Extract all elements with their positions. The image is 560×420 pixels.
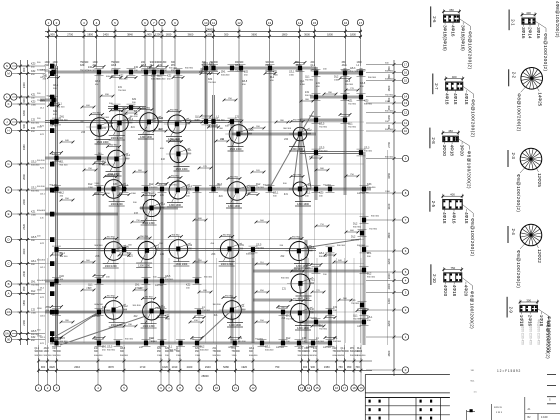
left margin label cluster 8 [50,212,54,217]
svg-text:750 900: 750 900 [202,310,211,312]
column JZL3 at (345,97) [343,95,347,100]
svg-text:H: H [7,129,9,133]
svg-text:2000: 2000 [387,283,391,289]
axis grid line vertical x=96.5 [96,40,98,343]
bottom axis stub 3 [56,345,58,385]
svg-text:Φ8@200 C30 450: Φ8@200 C30 450 [537,319,541,345]
axis grid line vertical x=162 [161,40,163,343]
right axis bubble 4 [402,277,408,283]
svg-text:900 900: 900 900 [368,77,377,79]
right axis bubble 13 [402,100,408,106]
svg-text:750: 750 [338,365,343,369]
small dimension symbol 21 [256,221,268,223]
svg-text:950: 950 [347,365,352,369]
svg-text:ZH1: ZH1 [350,348,355,350]
svg-text:600x300: 600x300 [149,187,158,189]
small dimension symbol 4 [190,121,202,123]
svg-text:QL1: QL1 [151,192,156,195]
pile cap circle P12 [293,182,307,196]
svg-text:1300 1300: 1300 1300 [169,204,181,207]
left axis bubble J [4,119,10,125]
beam horizontal y=134 [232,132,316,134]
pile cap circle P13 [143,199,160,216]
column JZL5 at (197,281) [195,279,199,284]
column ZH1 at (56.5,281) [54,279,58,284]
small dimension symbol 2 [127,107,139,109]
right axis bubble 17 [402,61,408,67]
column DL2 at (232,121.5) [230,119,234,124]
svg-text:C: C [7,262,9,266]
column JZL3 at (364,249.5) [362,247,366,252]
top axis bubble 4 [93,19,99,25]
svg-text:750 900: 750 900 [319,126,328,128]
svg-text:750 900: 750 900 [210,62,219,64]
svg-text:DL2: DL2 [124,306,129,308]
svg-text:3Φ16: 3Φ16 [521,27,526,39]
svg-text:950 950: 950 950 [292,237,301,239]
svg-text:KZ3: KZ3 [31,101,36,104]
svg-text:Φ8@100/200(2): Φ8@100/200(2) [466,151,471,189]
column ZJ2 at (345,73) [343,71,347,76]
left margin label cluster 2 [50,95,54,100]
svg-text:JZL1: JZL1 [319,252,325,255]
svg-text:600x300: 600x300 [37,210,46,212]
beam vertical x=361 [359,68,361,155]
svg-text:2-3: 2-3 [511,153,516,160]
column ZJ2 at (99,343) [97,341,101,346]
svg-text:4Φ20: 4Φ20 [443,285,448,297]
svg-text:600x300: 600x300 [158,71,168,73]
column ZJ1 at (330,189) [328,187,332,192]
left margin label cluster 15 [50,337,54,342]
left axis leader line F [12,189,45,191]
right axis leader 16 [366,72,402,74]
svg-text:900 300: 900 300 [281,278,290,280]
svg-text:900: 900 [22,67,26,72]
svg-text:2-5: 2-5 [431,201,436,208]
right axis leader 12 [366,112,402,114]
svg-text:JZL5: JZL5 [111,65,117,67]
svg-text:1300: 1300 [131,193,137,195]
svg-text:400: 400 [452,75,457,79]
column JZL3 at (364,312) [362,310,366,315]
pile cap circle P21 [143,302,161,320]
svg-text:300: 300 [303,365,308,369]
svg-text:ZJ2: ZJ2 [31,127,36,130]
svg-text:KZ1: KZ1 [195,348,200,350]
axis grid line vertical (bottom axis) x=336.5 [336,258,338,345]
svg-text:1050: 1050 [387,114,391,120]
svg-text:700: 700 [355,365,360,369]
svg-text:JZL1: JZL1 [265,346,271,349]
svg-text:11: 11 [212,21,215,25]
top axis bubble 5 [112,19,118,25]
svg-text:950 950: 950 950 [225,296,234,298]
column KZ3 at (206,121.5) [204,119,208,124]
right axis bubble 10 [402,128,408,134]
svg-text:ZJ1: ZJ1 [151,75,156,78]
small dimension symbol 33 [61,321,73,323]
svg-text:750 900: 750 900 [348,103,357,105]
bottom axis stub 1 [38,345,40,385]
title block right cell mark [547,403,556,405]
svg-text:15: 15 [404,79,408,83]
column ZJ2 at (213.5,189) [211,187,215,192]
svg-text:1300 1300: 1300 1300 [138,265,150,268]
svg-text:ZH1: ZH1 [171,65,176,67]
svg-text:DL2: DL2 [357,348,362,350]
column ZJ2 at (316,120) [314,118,318,123]
svg-text:900 300: 900 300 [31,123,40,125]
svg-text:900 900: 900 900 [364,103,373,105]
svg-text:x xx x: x xx x [496,411,503,414]
svg-text:400: 400 [526,11,531,15]
title block right cell mark [547,385,556,387]
svg-text:900 300: 900 300 [385,129,394,131]
svg-text:KZ2: KZ2 [31,336,36,339]
column KZ3 at (56.5,249.5) [54,247,58,252]
small dimension symbol 13 [134,171,146,173]
column KZ2 at (162,281) [160,279,164,284]
axis grid line vertical x=239 [238,40,240,343]
beam vertical x=283 [281,312,283,343]
svg-text:900 300: 900 300 [53,355,62,357]
svg-text:900 900: 900 900 [165,279,174,281]
svg-text:3Φ20: 3Φ20 [442,145,447,157]
svg-text:900 900: 900 900 [107,349,116,351]
top axis line 15 [314,26,316,66]
right axis bubble 3 [402,289,408,295]
svg-text:950 950: 950 950 [145,297,154,299]
right axis leader 17 [366,64,402,66]
svg-text:900 300: 900 300 [204,277,213,279]
svg-text:1300 1300: 1300 1300 [97,141,109,144]
svg-text:12: 12 [404,111,408,115]
top axis line 17 [360,26,362,66]
top axis bubble 7 [151,19,157,25]
svg-text:750 900: 750 900 [351,303,360,305]
top axis bubble 16 [342,19,348,25]
bottom axis stub 5 [123,345,125,385]
right axis bubble 11 [402,120,408,126]
left margin label cluster 5 [50,128,54,133]
column JZL1 at (262,343) [260,341,264,346]
axis grid line vertical (bottom axis) x=361 [360,258,362,345]
svg-text:QL1: QL1 [195,116,200,119]
top axis bubble 17 [357,19,363,25]
svg-text:14Φ25: 14Φ25 [538,92,543,106]
svg-text:600x300: 600x300 [319,150,328,152]
beam horizontal y=189 [45,187,371,189]
svg-text:950 950: 950 950 [293,175,302,177]
svg-text:JZL1: JZL1 [210,65,216,67]
svg-text:JZL3: JZL3 [217,183,223,186]
svg-text:QL1: QL1 [88,284,93,287]
small dimension symbol 28 [82,289,94,291]
svg-text:ZH1: ZH1 [221,71,226,74]
svg-text:750 900: 750 900 [256,247,265,249]
left margin label cluster 11 [50,282,54,287]
column JZL5 at (162,343) [160,341,164,346]
svg-text:900 300: 900 300 [238,341,247,343]
svg-text:JZL1: JZL1 [305,192,311,195]
svg-text:1800: 1800 [327,32,333,36]
beam vertical x=253 [251,249,253,343]
svg-text:12: 12 [251,386,255,390]
bottom axis stub 6 [160,345,162,385]
svg-text:QL1: QL1 [150,65,155,67]
svg-text:1300 1300: 1300 1300 [105,265,117,268]
left margin label cluster 13 [50,310,54,315]
svg-text:Φ8@100/200(2): Φ8@100/200(2) [516,250,521,288]
svg-text:JZL3: JZL3 [364,147,370,150]
left axis bubble L [4,94,10,100]
small dimension symbol 5 [216,140,228,142]
svg-text:900 300: 900 300 [266,62,275,64]
title block right cell mark [547,396,556,398]
svg-text:KZ3: KZ3 [31,63,36,66]
small dimension symbol 23 [346,231,358,233]
svg-text:3Φ16: 3Φ16 [536,27,541,39]
right axis leader 8 [366,192,402,194]
svg-text:600x300: 600x300 [265,349,274,351]
svg-text:F: F [8,188,10,192]
svg-text:QL1: QL1 [188,186,193,188]
svg-text:Φ8@100/200(2): Φ8@100/200(2) [543,33,548,71]
svg-text:Φ8@100/200(2): Φ8@100/200(2) [467,31,472,69]
svg-text:900 300: 900 300 [60,164,69,166]
bottom axis stub 9 [198,345,200,385]
svg-text:QL1: QL1 [305,76,310,79]
svg-text:15: 15 [315,386,319,390]
svg-text:Φ8@100/200(2): Φ8@100/200(2) [471,99,476,137]
axis grid line vertical (bottom axis) x=317 [316,258,318,345]
column KZ3 at (56.5,189) [54,187,58,192]
top axis line 8 [161,26,163,66]
small dimension symbol 16 [316,169,328,171]
svg-text:950 950: 950 950 [107,175,116,177]
top axis bubble 1 [45,19,51,25]
svg-text:KZ2: KZ2 [266,65,271,67]
pile cap circle P14 [104,242,123,261]
pile cap circle P17 [220,240,239,259]
svg-text:DL2: DL2 [351,236,356,239]
bottom axis bubble 3 [53,385,59,391]
top axis bubble 9 [172,19,178,25]
small dimension symbol 18 [61,199,73,201]
left margin label cluster 4 [50,120,54,125]
svg-text:00: 00 [7,338,11,342]
svg-text:900 900: 900 900 [283,128,292,130]
beam vertical x=202 [200,68,202,72]
beam vertical x=56.5 [55,66,57,345]
svg-text:ZJ1: ZJ1 [119,110,124,113]
top axis line 7 [153,26,155,66]
axis grid line horizontal y=122 [45,121,364,123]
svg-text:1300: 1300 [300,84,306,86]
svg-text:600x300: 600x300 [37,280,46,282]
svg-text:900 900: 900 900 [185,68,194,70]
small dimension symbol 38 [339,299,351,301]
svg-text:750 900: 750 900 [111,62,120,64]
right axis leader 14 [366,96,402,98]
svg-text:750 900: 750 900 [385,94,394,96]
column KZ1 at (146,189) [144,187,148,192]
svg-text:17: 17 [404,63,408,67]
beam vertical x=99 [97,73,99,343]
svg-text:10: 10 [215,386,219,390]
svg-text:900 900: 900 900 [92,316,101,318]
beam horizontal y=322 [300,320,364,322]
bottom axis bubble 11 [232,385,238,391]
column JZL3 at (313,343) [311,341,315,346]
svg-text:DL2: DL2 [161,204,166,206]
svg-text:JZL3: JZL3 [44,348,50,350]
axis grid line vertical (bottom axis) x=56.5 [56,258,58,345]
svg-text:19: 19 [359,386,363,390]
axis grid line vertical x=115 [114,40,116,343]
beam vertical x=146 [144,72,146,345]
title block right cell mark [547,374,556,376]
column ZH1 at (116,72) [114,70,118,75]
svg-text:750 900: 750 900 [232,351,241,353]
svg-text:900 300: 900 300 [113,187,122,189]
svg-text:KZ2: KZ2 [305,264,310,267]
right axis bubble 7 [402,217,408,223]
axis grid line horizontal y=239.5 [45,239,364,241]
column QL1 at (146,72) [144,70,148,75]
beam horizontal y=158 [45,156,118,158]
column QL1 at (361,73) [359,71,363,76]
svg-text:1300: 1300 [53,62,59,64]
right axis leader 7 [366,219,402,221]
svg-text:15: 15 [313,21,317,25]
svg-text:ZJ1: ZJ1 [235,116,240,119]
left margin label cluster 9 [50,237,54,242]
small dimension symbol 20 [194,219,206,221]
column KZ2 at (316,152.5) [314,150,318,155]
beam horizontal y=73 [316,71,362,73]
svg-text:DL2: DL2 [60,192,65,195]
right axis bubble 6 [402,248,408,254]
small dimension symbol 37 [312,325,324,327]
column JZL5 at (162,72) [160,70,164,75]
left axis bubble 1/A [5,309,11,315]
beam horizontal y=312 [45,310,330,312]
axis grid line horizontal y=190 [45,189,364,191]
axis grid line vertical (bottom axis) x=308.5 [308,258,310,345]
small dimension symbol 24 [82,261,94,263]
svg-text:1300 1300: 1300 1300 [228,205,240,208]
svg-text:1300: 1300 [305,351,311,353]
column KZ2 at (53.5,100) [51,98,55,103]
column ZJ2 at (316,270) [314,268,318,273]
left margin label cluster 12 [50,291,54,296]
svg-text:28000: 28000 [201,374,209,378]
top axis bubble 8 [159,19,165,25]
svg-text:1300 1300: 1300 1300 [176,168,188,171]
top axis bubble 3 [81,19,87,25]
svg-text:xxxx xx: xxxx xx [494,406,503,409]
left axis leader line M [12,73,45,75]
svg-text:JZL1: JZL1 [273,192,279,195]
svg-text:2040: 2040 [22,270,26,276]
svg-text:350: 350 [449,8,454,12]
beam horizontal y=152.5 [300,151,361,153]
svg-text:600x300: 600x300 [249,355,258,357]
svg-text:600x300: 600x300 [246,254,255,256]
svg-text:2800: 2800 [387,232,391,238]
axis grid line vertical (bottom axis) x=253 [252,258,254,345]
svg-text:KZ1: KZ1 [157,348,162,350]
right dimension line [393,60,395,376]
svg-text:600x300: 600x300 [385,78,394,80]
column KZ2 at (316,322) [314,320,318,325]
svg-text:4Φ18: 4Φ18 [452,285,457,297]
top axis line 10 [205,26,207,66]
svg-text:4Φ16: 4Φ16 [451,25,456,37]
svg-text:400: 400 [450,193,455,197]
svg-text:A: A [8,292,10,296]
svg-text:QL1: QL1 [35,348,40,350]
beam vertical x=206 [204,68,206,122]
svg-text:600x300: 600x300 [94,355,103,357]
left axis leader line 0A [12,333,45,335]
svg-text:KZ3: KZ3 [80,65,85,67]
bottom axis bubble 16 [333,385,339,391]
svg-text:13: 13 [300,386,304,390]
top axis bubble 14 [296,19,302,25]
svg-text:1300 1300: 1300 1300 [175,263,187,266]
beam vertical x=345 [343,68,345,195]
column KZ2 at (270,189) [268,187,272,192]
svg-text:900 300: 900 300 [217,119,226,121]
pile cap circle P18 [290,242,309,261]
svg-text:2-4: 2-4 [511,229,516,236]
svg-text:750 900: 750 900 [80,62,89,64]
svg-text:DL2: DL2 [200,346,205,349]
svg-text:750 900: 750 900 [341,351,350,353]
svg-text:1300: 1300 [44,351,50,353]
axis grid line vertical x=360.5 [360,40,362,343]
svg-text:1300 1300: 1300 1300 [143,222,155,225]
svg-text:QL1: QL1 [348,123,353,126]
svg-text:900 300: 900 300 [385,110,394,112]
svg-text:1620: 1620 [162,365,168,369]
top axis line 11 [213,26,215,66]
bottom axis bubble 5 [121,385,127,391]
axis grid line vertical (bottom axis) x=344.5 [344,258,346,345]
svg-text:2-7: 2-7 [434,83,439,90]
svg-text:JZL5: JZL5 [242,81,248,83]
pile cap circle P19 [291,274,310,293]
svg-text:KZ1: KZ1 [165,348,170,350]
svg-text:900 300: 900 300 [93,71,102,73]
svg-text:1600: 1600 [387,85,391,91]
beam diagonal [56,312,99,336]
beam diagonal [199,310,232,341]
beam horizontal y=72 [48,70,202,72]
svg-text:ZH1: ZH1 [46,306,51,309]
bottom axis stub 8 [179,345,181,385]
small dimension symbol 22 [316,225,328,227]
svg-text:JZL1: JZL1 [40,267,46,269]
title block signature cell [466,410,468,420]
right axis bubble 16 [402,69,408,75]
beam horizontal y=214 [45,212,118,214]
column JZL1 at (99,189) [97,187,101,192]
svg-text:ZJ1: ZJ1 [186,192,191,195]
